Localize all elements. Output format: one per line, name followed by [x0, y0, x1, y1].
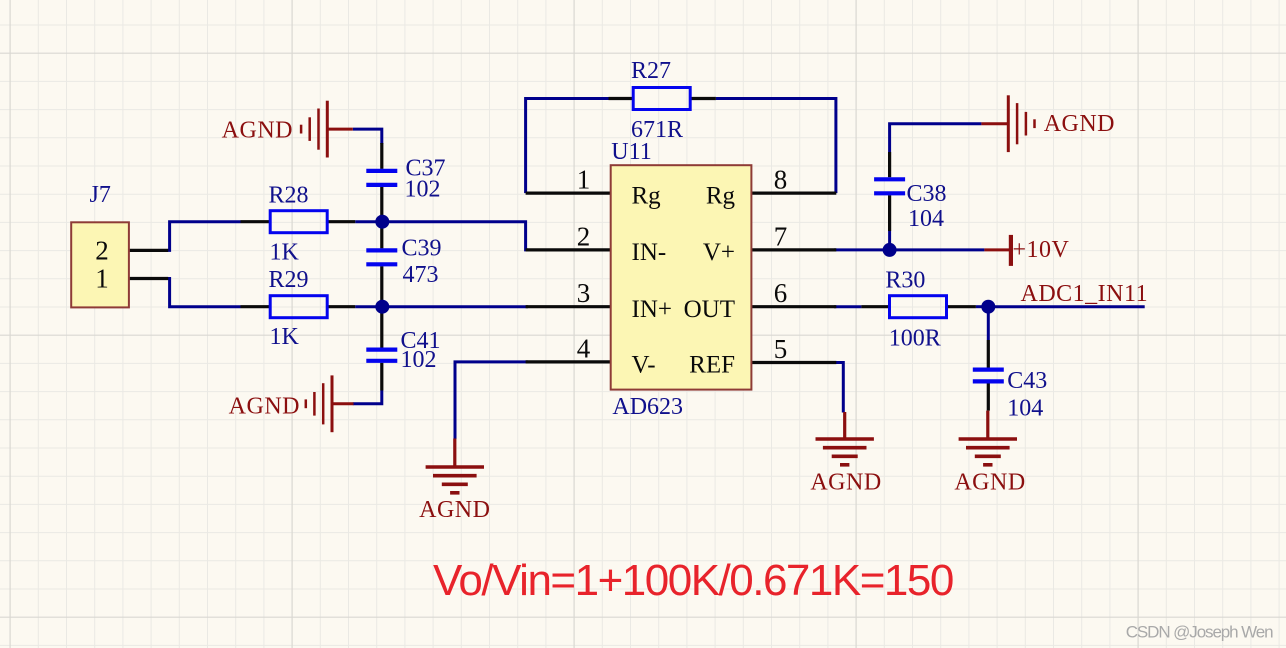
U11 pin name IN+ [632, 296, 672, 323]
label AGND top-left [222, 118, 293, 144]
svg-text:102: 102 [401, 347, 437, 373]
J7 pin 2 stub [129, 249, 168, 252]
wire R27 loop left (pin1 to R27) [526, 99, 609, 194]
U11 pin name IN- [632, 239, 667, 266]
label J7 [90, 182, 111, 208]
watermark CSDN [1126, 623, 1273, 642]
svg-text:V-: V- [632, 351, 656, 378]
U11 pin 2 wire [526, 248, 611, 251]
label AGND (V- ground) [419, 497, 490, 523]
power +10V symbol [984, 235, 1013, 266]
svg-text:R28: R28 [269, 182, 309, 208]
svg-text:5: 5 [774, 334, 788, 364]
pin number 1 [577, 165, 591, 195]
pin number 8 [774, 165, 788, 195]
U11 pin 4 wire [526, 360, 611, 363]
R30 pins [861, 305, 976, 308]
svg-text:J7: J7 [90, 182, 111, 208]
label U11 [611, 139, 651, 165]
wire junction3 up to C38 [888, 231, 891, 250]
capacitor C38 [874, 152, 905, 231]
ground AGND symbol top-right [981, 95, 1034, 152]
pin number 5 [774, 334, 788, 364]
label R27 [631, 58, 671, 84]
ground AGND under V- pin [426, 439, 484, 493]
svg-text:AGND: AGND [1044, 111, 1115, 137]
R29 pins [241, 305, 356, 308]
value 473 [403, 262, 439, 288]
pin number 4 [577, 334, 591, 364]
resistor R28 [270, 211, 327, 233]
pin number 6 [774, 278, 788, 308]
R27 pins [609, 97, 716, 100]
capacitor C43 [973, 340, 1004, 411]
svg-text:2: 2 [577, 221, 591, 251]
junction node B (R29/C39/C41) [375, 300, 389, 314]
wire R29 right to pin3 (IN+) [355, 305, 528, 308]
capacitor C37 [366, 143, 397, 222]
svg-text:V+: V+ [703, 239, 735, 266]
svg-text:CSDN @Joseph Wen: CSDN @Joseph Wen [1126, 623, 1273, 642]
connector J7 [71, 222, 129, 307]
resistor R30 [890, 296, 947, 318]
svg-text:IN+: IN+ [632, 296, 672, 323]
U11 pin name Rg right [706, 182, 736, 209]
svg-text:1: 1 [95, 264, 109, 294]
R28 pins [241, 220, 356, 223]
U11 pin 3 wire [526, 305, 611, 308]
U11 pin 8 wire [751, 192, 836, 195]
U11 pin 5 wire [751, 361, 836, 364]
svg-text:C38: C38 [907, 181, 947, 207]
svg-text:1K: 1K [270, 240, 300, 266]
U11 pin 6 wire [751, 305, 836, 308]
wire junction1 row net (R28 right to pin2 corner) [355, 222, 528, 250]
op-amp U11 AD623 body [611, 165, 752, 389]
wire R27 loop right (R27 to pin8) [716, 99, 836, 194]
ground AGND symbol top-left [301, 101, 353, 158]
svg-text:Rg: Rg [632, 182, 662, 209]
resistor R29 [270, 296, 327, 318]
svg-text:3: 3 [577, 278, 591, 308]
value 102 (C41) [401, 347, 437, 373]
svg-text:2: 2 [95, 235, 109, 265]
wire R30 right to junction4 [976, 305, 988, 308]
value 1K (R29) [270, 324, 300, 350]
pin number 3 [577, 278, 591, 308]
ground AGND under C43 [959, 411, 1017, 465]
label AGND (REF ground) [810, 470, 881, 496]
value 104 (C38) [908, 206, 944, 232]
net label ADC1_IN11 [1021, 281, 1149, 307]
label AGND top-right [1044, 111, 1115, 137]
J7 pin number 1 [95, 264, 109, 294]
U11 pin name REF [689, 351, 735, 378]
J7 pin number 2 [95, 235, 109, 265]
svg-text:6: 6 [774, 278, 788, 308]
svg-text:8: 8 [774, 165, 788, 195]
U11 pin 1 wire [526, 192, 611, 195]
svg-text:C43: C43 [1007, 368, 1047, 394]
svg-text:Vo/Vin=1+100K/0.671K=150: Vo/Vin=1+100K/0.671K=150 [433, 556, 953, 605]
wire AGND1 to C37 top [353, 129, 382, 144]
label C41 [401, 328, 441, 354]
junction node A (R28/C37/C39) [375, 215, 389, 229]
value 1K (R28) [270, 240, 300, 266]
svg-text:ADC1_IN11: ADC1_IN11 [1021, 281, 1149, 307]
label C38 [907, 181, 947, 207]
svg-text:IN-: IN- [632, 239, 667, 266]
svg-text:AGND: AGND [810, 470, 881, 496]
svg-text:100R: 100R [889, 326, 941, 352]
svg-text:OUT: OUT [684, 296, 735, 323]
value 671R [631, 117, 683, 143]
pin number 2 [577, 221, 591, 251]
label AGND mid-left [229, 394, 300, 420]
svg-text:Rg: Rg [706, 182, 736, 209]
ground AGND under REF pin [816, 412, 874, 465]
svg-text:4: 4 [577, 334, 591, 364]
svg-text:1K: 1K [270, 324, 300, 350]
svg-text:C39: C39 [402, 236, 442, 262]
ground AGND symbol mid-left [306, 375, 354, 432]
svg-text:1: 1 [577, 165, 591, 195]
resistor R27 [633, 88, 690, 110]
junction node D (OUT/C43) [981, 300, 995, 314]
svg-text:104: 104 [1007, 396, 1043, 422]
label AGND (C43 ground) [954, 470, 1025, 496]
wire pin4 V- down to ground [455, 362, 528, 439]
svg-text:671R: 671R [631, 117, 683, 143]
svg-text:AD623: AD623 [612, 394, 683, 420]
U11 pin name OUT [684, 296, 735, 323]
label C43 [1007, 368, 1047, 394]
pin number 7 [774, 221, 788, 251]
svg-text:R30: R30 [885, 268, 925, 294]
value 102 (C37) [405, 177, 441, 203]
junction node C (V+/C38) [883, 243, 897, 257]
value 104 (C43) [1007, 396, 1043, 422]
svg-text:102: 102 [405, 177, 441, 203]
U11 pin name V+ [703, 239, 735, 266]
gain formula annotation [433, 556, 953, 605]
svg-text:REF: REF [689, 351, 735, 378]
value 100R [889, 326, 941, 352]
label R30 [885, 268, 925, 294]
wire C38 top to corner [890, 124, 982, 152]
U11 pin name Rg left [632, 182, 662, 209]
label R28 [269, 182, 309, 208]
svg-text:104: 104 [908, 206, 944, 232]
svg-text:473: 473 [403, 262, 439, 288]
svg-text:7: 7 [774, 221, 788, 251]
wire net ADC1_IN11 [988, 305, 1144, 308]
capacitor C41 [366, 307, 397, 391]
label C39 [402, 236, 442, 262]
U11 pin name V- [632, 351, 656, 378]
wire pin6 OUT to R30 [834, 305, 861, 308]
label C37 [406, 156, 446, 182]
svg-text:+10V: +10V [1013, 237, 1070, 263]
svg-text:AGND: AGND [419, 497, 490, 523]
label R29 [269, 267, 309, 293]
svg-text:AGND: AGND [222, 118, 293, 144]
wire J7 pin2 to R28 left [168, 222, 241, 251]
svg-text:AGND: AGND [954, 470, 1025, 496]
wire J7 pin1 to R29 left [168, 279, 241, 307]
wire junction4 down to C43 [987, 307, 990, 340]
svg-text:R27: R27 [631, 58, 671, 84]
label AD623 [612, 394, 683, 420]
svg-text:R29: R29 [269, 267, 309, 293]
wire pin7 V+ to junction3 to +10V [834, 248, 984, 251]
wire pin5 REF to ground [834, 363, 843, 413]
capacitor C39 [366, 222, 397, 307]
J7 pin 1 stub [129, 277, 168, 280]
label +10V [1013, 237, 1070, 263]
svg-text:AGND: AGND [229, 394, 300, 420]
wire C41 bottom to AGND2 [353, 391, 382, 404]
U11 pin 7 wire [751, 248, 836, 251]
